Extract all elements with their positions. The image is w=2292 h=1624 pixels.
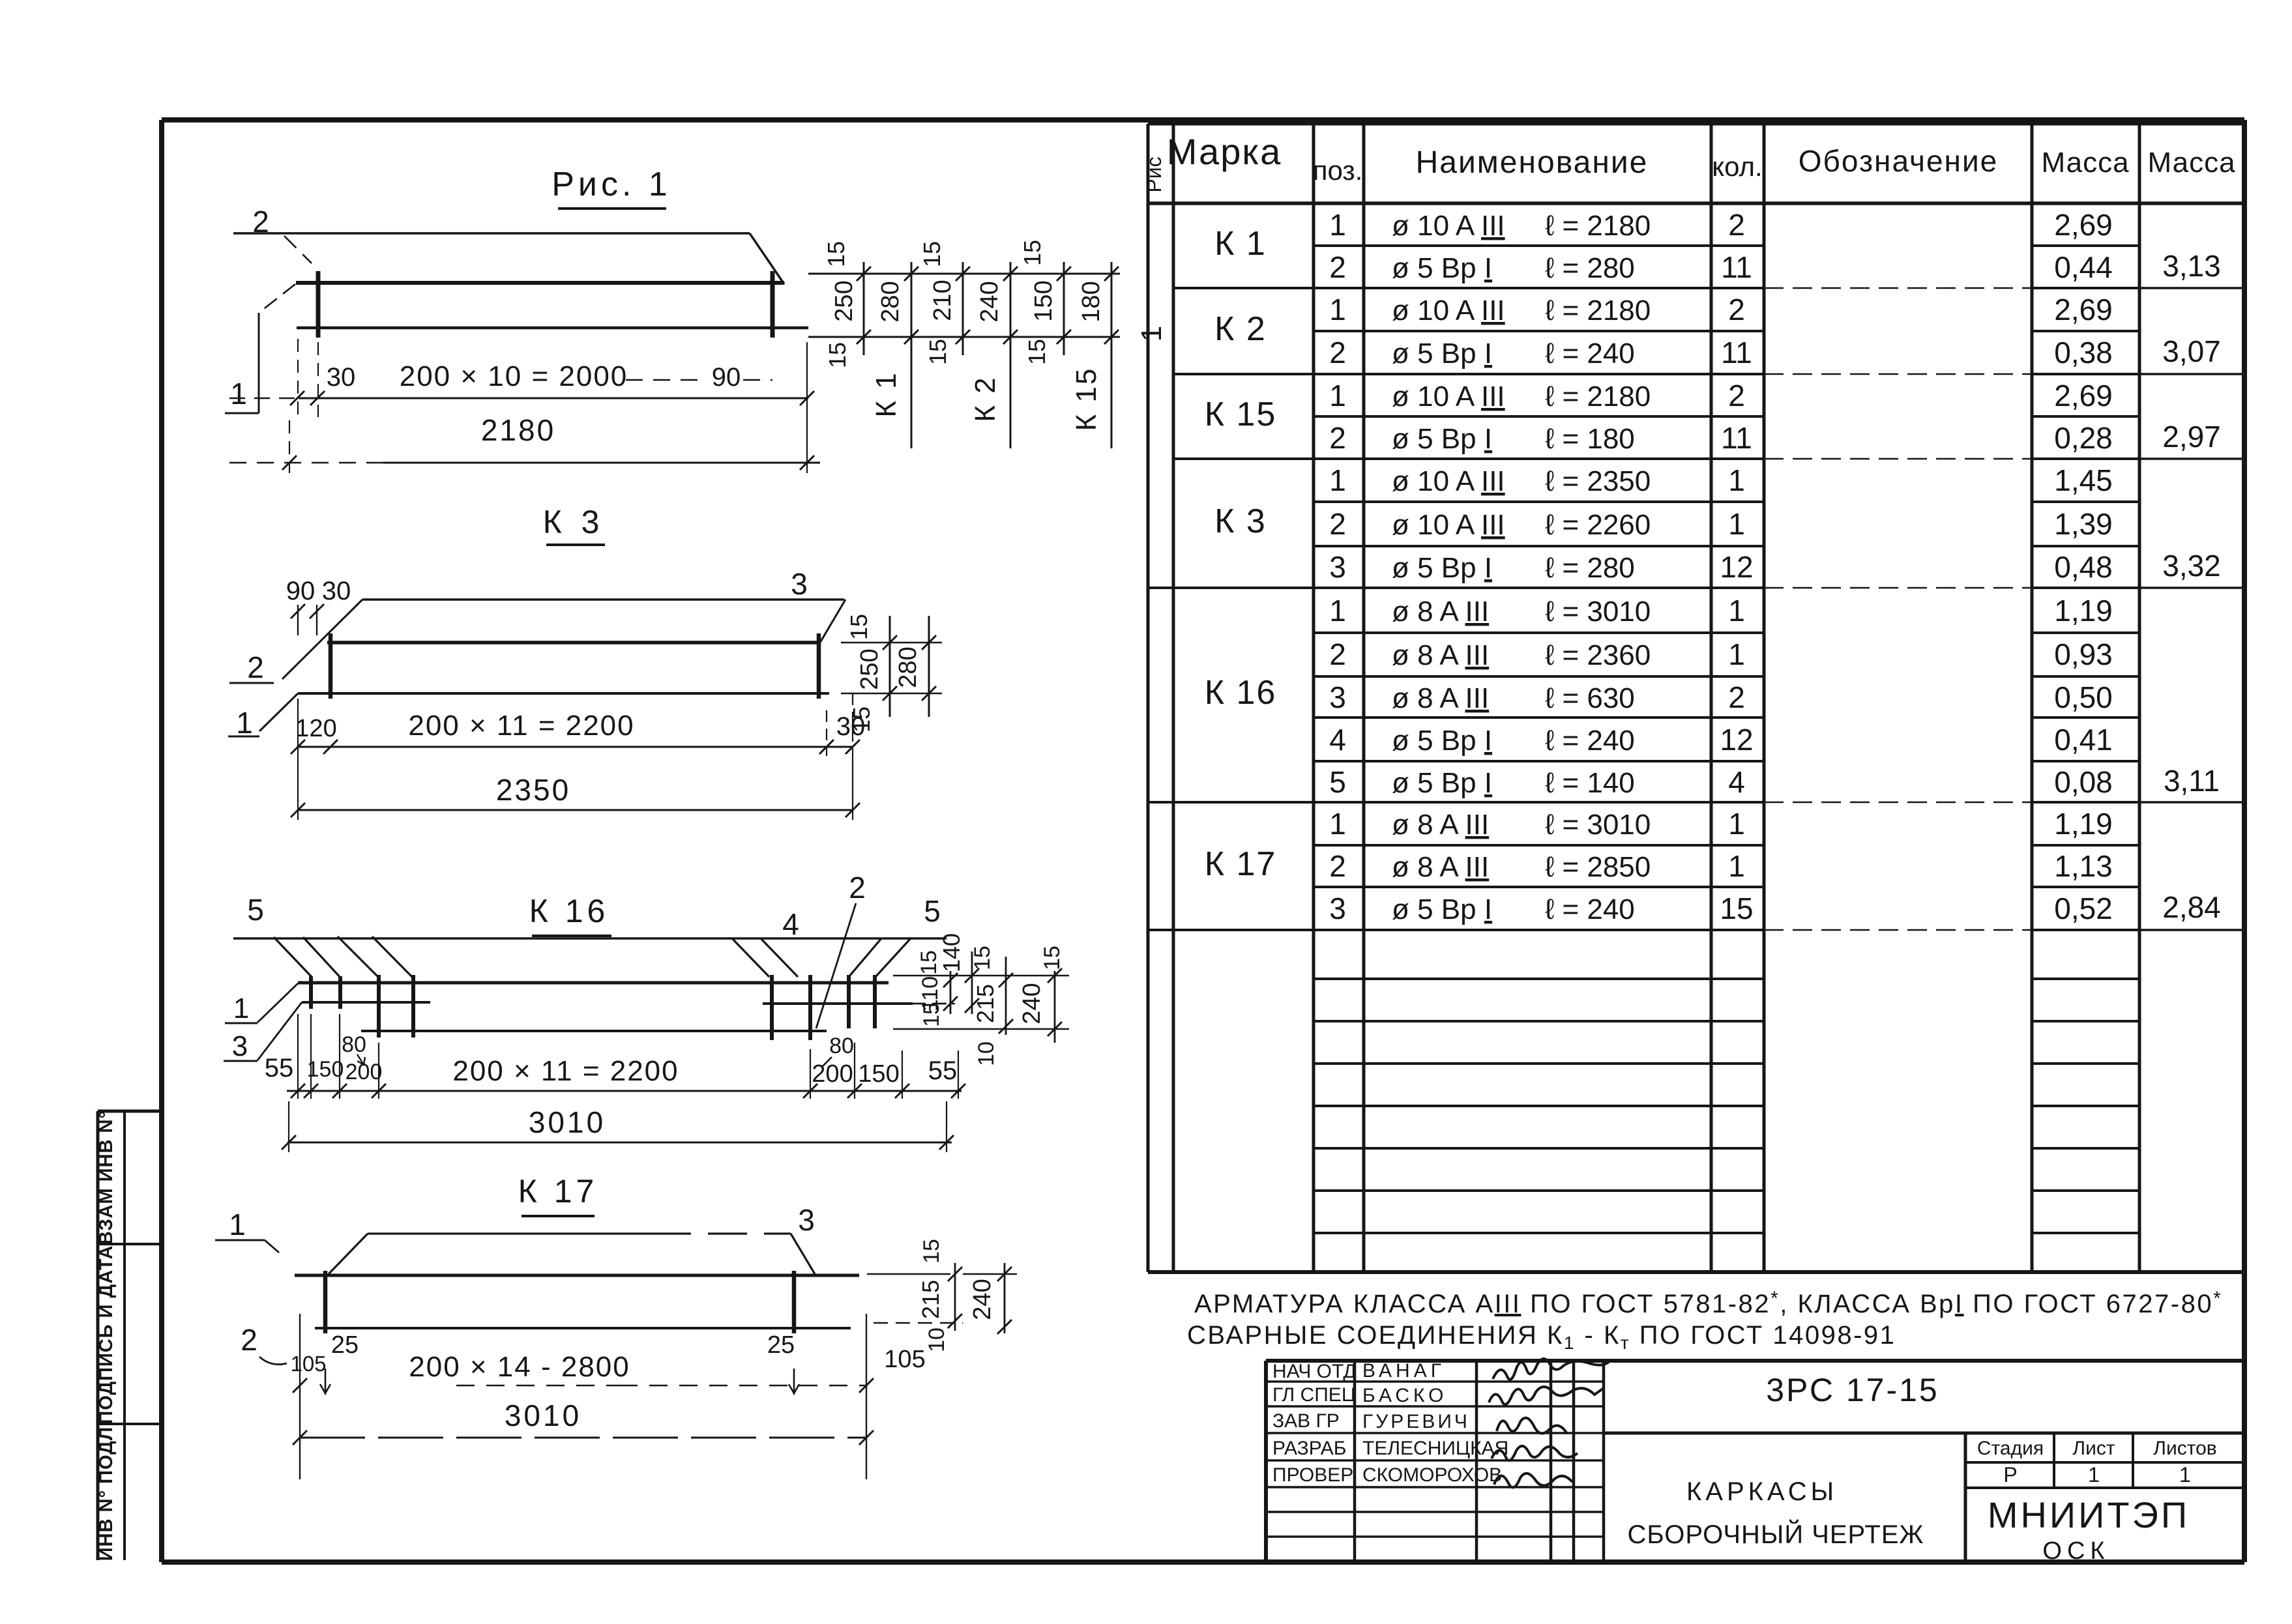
svg-text:3,11: 3,11 <box>2164 764 2220 798</box>
svg-text:0,38: 0,38 <box>2054 336 2113 370</box>
Рис.1 label 1 with leader <box>225 284 295 413</box>
title block org МНИИТЭП <box>1988 1494 2190 1565</box>
svg-text:НАЧ ОТД: НАЧ ОТД <box>1272 1361 1357 1382</box>
К16 dim line upper <box>287 1014 965 1099</box>
svg-text:15: 15 <box>824 342 851 368</box>
svg-text:Рис: Рис <box>1142 156 1166 192</box>
svg-text:215: 215 <box>972 984 999 1023</box>
svg-text:200 × 11 = 2200: 200 × 11 = 2200 <box>408 710 634 742</box>
svg-text:2: 2 <box>241 1323 257 1357</box>
svg-text:2: 2 <box>1329 250 1346 284</box>
svg-text:2: 2 <box>252 205 269 239</box>
title block stadia table <box>1965 1433 2244 1488</box>
svg-text:1: 1 <box>1728 594 1745 628</box>
svg-text:1: 1 <box>1329 293 1346 326</box>
svg-text:200 × 14 - 2800: 200 × 14 - 2800 <box>409 1351 630 1383</box>
svg-text:1: 1 <box>230 377 247 411</box>
svg-text:3: 3 <box>798 1203 815 1237</box>
Рис.1 right cross bar <box>771 271 775 338</box>
svg-text:ø 8 A III: ø 8 A III <box>1392 851 1489 883</box>
svg-text:2: 2 <box>1728 208 1745 242</box>
svg-text:К 17: К 17 <box>518 1173 598 1210</box>
svg-text:15: 15 <box>1040 946 1065 970</box>
svg-text:АРМАТУРА КЛАССА АIII ПО ГОСТ 5: АРМАТУРА КЛАССА АIII ПО ГОСТ 5781-82*, К… <box>1194 1288 2222 1318</box>
svg-text:КАРКАСЫ: КАРКАСЫ <box>1686 1477 1838 1506</box>
svg-text:15: 15 <box>845 614 872 640</box>
svg-text:Масса: Масса <box>2147 147 2235 179</box>
svg-text:5: 5 <box>247 893 264 927</box>
svg-text:2: 2 <box>1728 680 1745 714</box>
svg-text:ТЕЛЕСНИЦКАЯ: ТЕЛЕСНИЦКАЯ <box>1362 1438 1508 1459</box>
svg-text:5: 5 <box>924 894 941 928</box>
svg-text:К 15: К 15 <box>1205 396 1277 433</box>
svg-text:2180: 2180 <box>481 413 555 447</box>
svg-text:2,69: 2,69 <box>2054 293 2113 326</box>
svg-text:1: 1 <box>1136 326 1168 341</box>
svg-text:0,41: 0,41 <box>2054 723 2113 757</box>
svg-text:Лист: Лист <box>2072 1438 2115 1459</box>
svg-text:ø 5 Bp I: ø 5 Bp I <box>1392 252 1492 284</box>
svg-text:ø 10 A III: ø 10 A III <box>1392 509 1505 541</box>
svg-text:ℓ = 280: ℓ = 280 <box>1545 252 1635 284</box>
К3 dim 2350 <box>291 756 860 820</box>
svg-text:280: 280 <box>877 281 904 322</box>
svg-text:ø 5 Bp I: ø 5 Bp I <box>1392 893 1492 925</box>
Рис.1 far bar line (пос.2) <box>233 233 784 284</box>
К17 label 2 with leader <box>241 1323 287 1365</box>
svg-text:3,13: 3,13 <box>2162 249 2221 283</box>
svg-text:ℓ = 2180: ℓ = 2180 <box>1545 381 1651 413</box>
svg-text:ø 10 A III: ø 10 A III <box>1392 381 1505 413</box>
svg-text:1: 1 <box>1728 849 1745 883</box>
svg-text:15: 15 <box>848 706 875 732</box>
К16 dim 3010 <box>282 1101 954 1152</box>
svg-text:ОСК: ОСК <box>2042 1537 2109 1565</box>
svg-text:10: 10 <box>924 1327 949 1352</box>
К17 label 1 <box>215 1208 279 1253</box>
svg-text:11: 11 <box>1721 421 1752 455</box>
svg-text:ø 8 A III: ø 8 A III <box>1392 639 1489 671</box>
svg-text:210: 210 <box>929 280 956 321</box>
svg-text:1,45: 1,45 <box>2054 463 2113 497</box>
svg-text:ЗАВ ГР: ЗАВ ГР <box>1272 1410 1340 1432</box>
Рис.1 bottom chord <box>297 326 808 330</box>
К16 label 3 with leader <box>224 1002 302 1062</box>
svg-text:К 16: К 16 <box>1205 674 1277 712</box>
К17 far bar line <box>368 1232 791 1234</box>
К17 dim 3010 <box>293 1399 874 1445</box>
svg-text:ℓ = 180: ℓ = 180 <box>1545 423 1635 455</box>
svg-text:15: 15 <box>924 339 951 365</box>
svg-text:Обозначение: Обозначение <box>1799 144 1999 178</box>
svg-text:5: 5 <box>1329 765 1346 799</box>
svg-text:1: 1 <box>1329 208 1346 242</box>
К3 top chord <box>327 641 820 645</box>
К3 dim line row1 <box>291 693 860 756</box>
svg-text:1: 1 <box>233 993 249 1024</box>
svg-text:ø 5 Bp I: ø 5 Bp I <box>1392 423 1492 455</box>
svg-text:0,44: 0,44 <box>2054 250 2113 284</box>
svg-text:К 2: К 2 <box>1214 310 1267 348</box>
svg-text:ℓ = 2260: ℓ = 2260 <box>1545 509 1651 541</box>
svg-text:ℓ = 240: ℓ = 240 <box>1545 338 1635 370</box>
svg-text:ℓ = 2180: ℓ = 2180 <box>1545 295 1651 326</box>
table data texts <box>1136 208 2221 925</box>
Рис.1 top chord <box>296 281 784 285</box>
К16 dimension row 55 150 200 2200 <box>265 1032 958 1088</box>
svg-text:1,19: 1,19 <box>2054 807 2113 841</box>
К16 label 1 with leader <box>225 983 298 1024</box>
svg-text:1: 1 <box>2088 1463 2100 1486</box>
svg-text:10: 10 <box>974 1041 999 1066</box>
svg-text:1: 1 <box>1329 807 1346 841</box>
svg-text:ℓ = 140: ℓ = 140 <box>1545 767 1635 799</box>
К16 second wire left (пос.3) <box>302 1001 430 1004</box>
svg-text:30: 30 <box>327 363 356 392</box>
svg-text:15: 15 <box>1720 892 1753 925</box>
svg-text:15: 15 <box>970 946 995 970</box>
svg-text:1: 1 <box>1728 507 1745 541</box>
svg-text:Рис. 1: Рис. 1 <box>551 166 671 203</box>
svg-text:25: 25 <box>331 1331 359 1359</box>
svg-text:3: 3 <box>791 567 808 601</box>
svg-text:ℓ = 3010: ℓ = 3010 <box>1545 809 1651 841</box>
К3 label 1 with leader <box>228 693 298 740</box>
svg-text:3010: 3010 <box>505 1399 581 1432</box>
svg-text:1,19: 1,19 <box>2054 594 2113 628</box>
svg-text:Масса: Масса <box>2041 147 2129 179</box>
svg-text:120: 120 <box>295 715 336 742</box>
К3 right cross bar <box>817 633 821 699</box>
svg-text:ℓ = 2180: ℓ = 2180 <box>1545 210 1651 242</box>
title block inner division <box>1604 1433 2244 1562</box>
svg-text:0,08: 0,08 <box>2054 765 2113 799</box>
К17 cross bars <box>325 1271 794 1333</box>
svg-text:3: 3 <box>232 1030 248 1062</box>
svg-text:СБОРОЧНЫЙ ЧЕРТЕЖ: СБОРОЧНЫЙ ЧЕРТЕЖ <box>1628 1519 1924 1549</box>
svg-text:1: 1 <box>1329 594 1346 628</box>
svg-text:ℓ = 240: ℓ = 240 <box>1545 893 1635 925</box>
svg-text:ПОДПИСЬ И ДАТА: ПОДПИСЬ И ДАТА <box>96 1245 117 1424</box>
svg-text:К 17: К 17 <box>1205 845 1277 883</box>
svg-text:СВАРНЫЕ СОЕДИНЕНИЯ К1 - Кт ПО: СВАРНЫЕ СОЕДИНЕНИЯ К1 - Кт ПО ГОСТ 14098… <box>1187 1321 1896 1353</box>
К17 dimension texts <box>290 1331 925 1383</box>
svg-text:250: 250 <box>830 280 858 321</box>
svg-text:К 2: К 2 <box>969 375 1001 422</box>
svg-text:4: 4 <box>1728 765 1745 799</box>
К3 labels 90 30 <box>286 577 351 635</box>
svg-text:МНИИТЭП: МНИИТЭП <box>1988 1494 2190 1535</box>
svg-text:280: 280 <box>894 646 922 688</box>
title block roles and names <box>1272 1360 1508 1486</box>
К3 right section dims <box>841 614 942 732</box>
svg-text:ℓ = 2350: ℓ = 2350 <box>1545 465 1651 497</box>
svg-text:ℓ = 2360: ℓ = 2360 <box>1545 639 1651 671</box>
svg-text:215: 215 <box>917 1280 944 1319</box>
svg-text:15: 15 <box>918 241 945 267</box>
svg-text:2: 2 <box>1329 507 1346 541</box>
svg-text:12: 12 <box>1720 723 1753 757</box>
svg-text:15: 15 <box>919 1239 944 1264</box>
svg-text:240: 240 <box>969 1279 996 1320</box>
svg-text:1: 1 <box>229 1208 246 1241</box>
К16 bottom chord <box>361 1030 827 1032</box>
svg-text:0,52: 0,52 <box>2054 892 2113 925</box>
svg-text:80: 80 <box>342 1032 366 1057</box>
svg-text:15: 15 <box>1019 240 1046 266</box>
svg-text:Марка: Марка <box>1167 131 1282 172</box>
svg-text:2,69: 2,69 <box>2054 208 2113 242</box>
title block signatures <box>1489 1359 1609 1487</box>
К16 far bar line <box>233 937 947 939</box>
svg-text:2: 2 <box>1329 849 1346 883</box>
svg-text:Р: Р <box>2003 1463 2017 1486</box>
К3 left diagonal to label 2 <box>229 600 362 684</box>
svg-text:4: 4 <box>782 907 799 941</box>
svg-text:2: 2 <box>1329 336 1346 370</box>
svg-text:2: 2 <box>1728 379 1745 413</box>
svg-text:К 1: К 1 <box>1214 225 1267 263</box>
svg-text:1: 1 <box>1728 807 1745 841</box>
svg-text:15: 15 <box>823 241 849 267</box>
svg-text:К 3: К 3 <box>1214 502 1267 540</box>
Рис.1 label 2 <box>252 205 312 263</box>
title block frame <box>1266 1361 2244 1562</box>
К17 end diagonals <box>329 1234 815 1274</box>
К16 bent wire diagonals left <box>274 936 414 979</box>
К17 dim line 2800 <box>293 1314 874 1479</box>
svg-text:СКОМОРОХОВ: СКОМОРОХОВ <box>1362 1464 1502 1486</box>
svg-text:1: 1 <box>2179 1463 2191 1486</box>
svg-text:3: 3 <box>1329 680 1346 714</box>
svg-text:105: 105 <box>290 1352 326 1376</box>
svg-text:55: 55 <box>265 1054 294 1082</box>
left stamp boxes <box>96 1110 162 1561</box>
svg-text:1: 1 <box>236 706 253 740</box>
svg-text:240: 240 <box>1018 983 1046 1024</box>
svg-text:2,84: 2,84 <box>2162 890 2221 924</box>
table header texts <box>1142 131 2236 193</box>
svg-text:ø 10 A III: ø 10 A III <box>1392 210 1505 242</box>
К3 right diagonal <box>820 600 845 643</box>
svg-text:К 3: К 3 <box>543 504 605 540</box>
svg-text:Наименование: Наименование <box>1416 145 1649 180</box>
svg-text:180: 180 <box>1078 281 1105 322</box>
svg-text:ø 8 A III: ø 8 A III <box>1392 596 1489 628</box>
svg-text:ø 8 A III: ø 8 A III <box>1392 809 1489 841</box>
К17 right section dims <box>867 1239 1017 1352</box>
К16 bent wire diagonals right <box>732 938 911 977</box>
svg-text:Листов: Листов <box>2153 1438 2216 1459</box>
svg-text:15: 15 <box>1023 339 1050 365</box>
К16 second wire right (пос.3) <box>763 1002 913 1005</box>
svg-text:11: 11 <box>1721 250 1752 284</box>
svg-text:ℓ = 630: ℓ = 630 <box>1545 682 1635 714</box>
Рис.1 dim line 2180 upper <box>229 339 814 417</box>
svg-text:3,07: 3,07 <box>2162 334 2221 368</box>
svg-text:ø 5 Bp I: ø 5 Bp I <box>1392 552 1492 584</box>
svg-text:К 15: К 15 <box>1070 367 1102 431</box>
svg-text:0,93: 0,93 <box>2054 637 2113 671</box>
svg-text:140: 140 <box>938 933 965 972</box>
svg-text:ℓ = 240: ℓ = 240 <box>1545 725 1635 757</box>
svg-text:200 × 10 = 2000: 200 × 10 = 2000 <box>400 360 628 392</box>
svg-text:1,39: 1,39 <box>2054 507 2113 541</box>
svg-text:15: 15 <box>919 1002 944 1027</box>
svg-text:2,97: 2,97 <box>2162 420 2221 454</box>
svg-text:0,50: 0,50 <box>2054 680 2113 714</box>
К3 left cross bar <box>329 633 333 699</box>
svg-text:250: 250 <box>856 648 883 689</box>
svg-text:К 16: К 16 <box>529 893 610 929</box>
svg-text:2: 2 <box>1728 293 1745 326</box>
svg-text:ℓ = 2850: ℓ = 2850 <box>1545 851 1651 883</box>
svg-text:11: 11 <box>1721 336 1752 370</box>
svg-text:кол.: кол. <box>1712 151 1762 182</box>
drawing К17 title <box>518 1173 598 1216</box>
drawing К16 title <box>529 893 611 936</box>
К3 dimension row 120 / 200x11=2200 / 30 <box>295 710 865 742</box>
svg-text:К 1: К 1 <box>870 371 902 417</box>
svg-text:55: 55 <box>928 1056 958 1085</box>
drawing Рис.1 title <box>551 166 671 209</box>
Рис.1 right section dims K1 K2 K15 <box>808 240 1120 448</box>
svg-text:2: 2 <box>247 650 264 684</box>
svg-text:150: 150 <box>1030 280 1057 321</box>
svg-text:3,32: 3,32 <box>2162 549 2221 583</box>
svg-text:ø 8 A III: ø 8 A III <box>1392 682 1489 714</box>
К17 top chord <box>295 1274 859 1277</box>
svg-text:200 × 11 = 2200: 200 × 11 = 2200 <box>452 1055 679 1087</box>
svg-text:0,28: 0,28 <box>2054 421 2113 455</box>
svg-text:3РС 17-15: 3РС 17-15 <box>1766 1372 1939 1408</box>
title block name КАРКАСЫ <box>1628 1477 1924 1549</box>
svg-text:240: 240 <box>976 281 1003 322</box>
svg-text:150: 150 <box>858 1060 899 1088</box>
svg-text:1: 1 <box>1329 463 1346 497</box>
svg-text:ВАНАГ: ВАНАГ <box>1362 1360 1445 1382</box>
svg-text:2: 2 <box>1329 637 1346 671</box>
К17 bottom chord <box>315 1327 851 1329</box>
К16 top chord <box>298 981 889 985</box>
svg-text:3010: 3010 <box>529 1105 606 1139</box>
К16 cross bars <box>311 975 875 1040</box>
svg-text:ПРОВЕР: ПРОВЕР <box>1272 1464 1353 1486</box>
Рис.1 left cross bar <box>316 271 321 338</box>
svg-text:3: 3 <box>1329 550 1346 584</box>
drawing К3 title <box>543 504 605 545</box>
svg-text:1: 1 <box>1728 463 1745 497</box>
К16 right section dims <box>893 933 1069 1066</box>
svg-text:ℓ = 3010: ℓ = 3010 <box>1545 596 1651 628</box>
svg-text:ГЛ СПЕЦ: ГЛ СПЕЦ <box>1272 1384 1356 1406</box>
svg-text:2,69: 2,69 <box>2054 379 2113 413</box>
svg-text:0,48: 0,48 <box>2054 550 2113 584</box>
svg-text:ГУРЕВИЧ: ГУРЕВИЧ <box>1362 1411 1470 1432</box>
svg-text:105: 105 <box>884 1346 925 1373</box>
svg-text:ø 5 Bp I: ø 5 Bp I <box>1392 338 1492 370</box>
svg-text:ø 5 Bp I: ø 5 Bp I <box>1392 725 1492 757</box>
svg-text:25: 25 <box>767 1331 795 1359</box>
svg-text:Стадия: Стадия <box>1977 1438 2044 1459</box>
svg-text:3: 3 <box>1329 892 1346 925</box>
svg-text:200: 200 <box>812 1060 853 1088</box>
svg-text:ВЗАМ ИНВ N°: ВЗАМ ИНВ N° <box>96 1110 117 1245</box>
svg-text:поз.: поз. <box>1313 155 1363 186</box>
svg-text:12: 12 <box>1720 550 1753 584</box>
svg-text:80: 80 <box>829 1034 854 1058</box>
svg-text:150: 150 <box>307 1057 344 1082</box>
svg-text:1: 1 <box>1329 379 1346 413</box>
svg-text:ø 10 A III: ø 10 A III <box>1392 465 1505 497</box>
svg-text:1: 1 <box>1728 637 1745 671</box>
svg-text:90: 90 <box>712 363 741 392</box>
svg-text:1,13: 1,13 <box>2054 849 2113 883</box>
svg-text:ø 5 Bp I: ø 5 Bp I <box>1392 767 1492 799</box>
svg-text:БАСКО: БАСКО <box>1362 1385 1448 1406</box>
svg-text:ø 10 A III: ø 10 A III <box>1392 295 1505 326</box>
svg-text:РАЗРАБ: РАЗРАБ <box>1272 1438 1347 1459</box>
К3 bottom chord <box>298 692 829 695</box>
svg-text:2: 2 <box>1329 421 1346 455</box>
svg-text:90: 90 <box>286 577 316 605</box>
svg-text:30: 30 <box>322 577 351 605</box>
svg-text:200: 200 <box>345 1060 383 1084</box>
К16 label 5 left <box>247 893 264 927</box>
Рис.1 dimension row 30 / 200x10=2000 / 90 <box>327 360 772 392</box>
svg-text:ИНВ N° ПОДЛ: ИНВ N° ПОДЛ <box>96 1427 117 1561</box>
Рис.1 dim 2180 <box>229 342 820 473</box>
svg-text:2350: 2350 <box>496 773 570 807</box>
svg-text:2: 2 <box>849 871 866 905</box>
К3 far bar line (пос.3) <box>362 567 844 601</box>
К16 label 2 with leader <box>816 871 866 1028</box>
svg-text:ℓ = 280: ℓ = 280 <box>1545 552 1635 584</box>
svg-text:4: 4 <box>1329 723 1346 757</box>
parts table grid <box>1148 124 2244 1272</box>
